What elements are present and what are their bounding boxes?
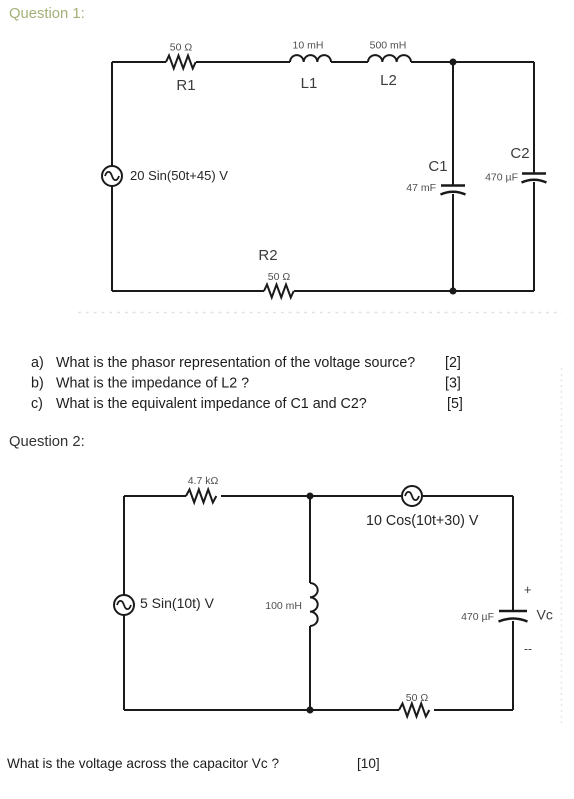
svg-text:500 mH: 500 mH xyxy=(370,40,407,52)
wire: circuit1 left wire upper segment xyxy=(111,62,113,166)
svg-text:100 mH: 100 mH xyxy=(265,600,302,612)
wire: circuit2 top wire right segment xyxy=(422,495,513,497)
wire: circuit2 right wire upper segment xyxy=(512,496,514,611)
svg-text:R1: R1 xyxy=(176,77,195,94)
capacitor C2 xyxy=(522,174,547,183)
wire: C1 branch lower segment xyxy=(452,194,454,291)
svg-text:Question 2:: Question 2: xyxy=(9,434,85,450)
svg-text:[5]: [5] xyxy=(447,396,463,412)
wire: circuit1 right wire lower segment xyxy=(533,182,535,291)
wire: middle branch lower segment xyxy=(309,626,311,710)
svg-text:[2]: [2] xyxy=(445,355,461,371)
AC source V3 xyxy=(402,486,422,506)
wire: circuit2 left wire upper segment xyxy=(123,496,125,595)
AC source V2 xyxy=(114,595,134,615)
wire: circuit2 bottom wire left segment xyxy=(124,709,399,711)
svg-text:What is the equivalent impedan: What is the equivalent impedance of C1 a… xyxy=(56,396,367,412)
wire: circuit1 top wire between R1 and L1 xyxy=(196,61,290,63)
separator dotted horizontal line xyxy=(78,312,562,314)
svg-text:4.7 kΩ: 4.7 kΩ xyxy=(188,475,219,487)
wire: circuit1 right wire upper segment xyxy=(533,62,535,173)
svg-text:a): a) xyxy=(31,355,44,371)
svg-text:470 µF: 470 µF xyxy=(461,611,494,623)
resistor R2 xyxy=(264,285,294,298)
capacitor C1 xyxy=(441,186,466,195)
resistor R1 xyxy=(166,56,196,69)
svg-text:Question 1:: Question 1: xyxy=(9,6,85,22)
wire: circuit2 top wire middle segment xyxy=(221,495,402,497)
svg-text:L1: L1 xyxy=(301,75,318,92)
wire: circuit1 left wire lower segment xyxy=(111,186,113,291)
wire: circuit2 right wire lower segment xyxy=(512,621,514,710)
wire: circuit2 top wire left segment xyxy=(124,495,186,497)
node junction top of C1 branch xyxy=(450,59,457,66)
svg-text:10 mH: 10 mH xyxy=(293,40,324,52)
inductor L1 xyxy=(290,55,331,62)
wire: circuit2 bottom wire right segment xyxy=(434,709,513,711)
svg-text:--: -- xyxy=(524,642,532,656)
node junction top of middle branch xyxy=(307,493,314,500)
resistor R4 50 ohm xyxy=(399,704,429,717)
wire: C1 branch upper segment xyxy=(452,62,454,185)
svg-text:50 Ω: 50 Ω xyxy=(268,271,291,283)
svg-text:50 Ω: 50 Ω xyxy=(406,692,429,704)
svg-text:10 Cos(10t+30) V: 10 Cos(10t+30) V xyxy=(366,513,479,529)
svg-text:20 Sin(50t+45) V: 20 Sin(50t+45) V xyxy=(130,168,228,183)
inductor L3 100mH xyxy=(310,583,318,626)
wire: middle branch upper segment xyxy=(309,496,311,583)
svg-text:L2: L2 xyxy=(380,72,397,89)
wire: circuit1 top wire left segment xyxy=(112,61,166,63)
svg-text:+: + xyxy=(524,582,532,597)
svg-text:50 Ω: 50 Ω xyxy=(170,42,193,54)
svg-text:What is the impedance of L2 ?: What is the impedance of L2 ? xyxy=(56,376,249,392)
svg-text:C2: C2 xyxy=(510,145,529,162)
resistor R3 4.7k xyxy=(186,490,216,503)
svg-text:What is the voltage across the: What is the voltage across the capacitor… xyxy=(7,756,279,771)
node junction bottom of C1 branch xyxy=(450,288,457,295)
separator dotted vertical line xyxy=(561,368,563,727)
wire: circuit2 left wire lower segment xyxy=(123,615,125,710)
svg-text:[3]: [3] xyxy=(445,376,461,392)
wire: circuit1 bottom wire left segment xyxy=(112,290,264,292)
wire: circuit1 bottom wire right segment xyxy=(294,290,534,292)
svg-text:R2: R2 xyxy=(258,247,277,264)
svg-text:c): c) xyxy=(31,396,43,412)
wire: circuit1 top wire right segment xyxy=(411,61,534,63)
svg-text:5 Sin(10t) V: 5 Sin(10t) V xyxy=(140,595,215,611)
svg-text:Vc: Vc xyxy=(537,607,553,623)
capacitor C3 470uF xyxy=(499,611,528,622)
wire: circuit1 top wire between L1 and L2 xyxy=(331,61,368,63)
AC source V1 xyxy=(102,166,122,186)
svg-text:What is the phasor representat: What is the phasor representation of the… xyxy=(56,355,415,371)
svg-text:b): b) xyxy=(31,376,44,392)
svg-text:47 mF: 47 mF xyxy=(406,182,436,194)
svg-text:[10]: [10] xyxy=(357,756,380,771)
svg-text:470 µF: 470 µF xyxy=(485,172,518,184)
svg-text:C1: C1 xyxy=(428,158,447,175)
node junction bottom of middle branch xyxy=(307,707,314,714)
inductor L2 xyxy=(368,55,411,62)
